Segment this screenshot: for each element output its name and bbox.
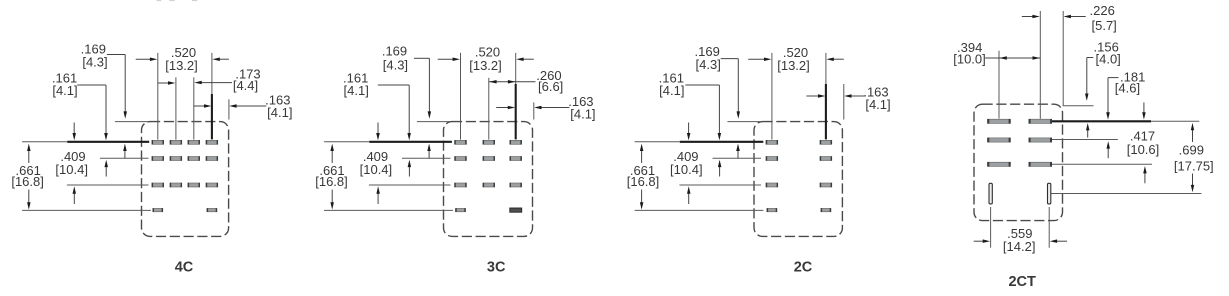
arrow .661 upper (up at row1) (28, 150, 30, 163)
svg-text:[10.6]: [10.6] (1127, 142, 1160, 157)
extension line below left vertical pin (990, 207, 992, 248)
extension line, 2CT body right edge (vertical) (1062, 11, 1064, 106)
arrow .661 upper (up at row1) (641, 150, 643, 163)
svg-text:[4.3]: [4.3] (383, 57, 408, 72)
pin 4C row1 col2 (170, 140, 182, 144)
pin 4C row4 col1 (153, 208, 163, 211)
pin 4C row3 col1 (152, 183, 164, 187)
extension line, body right edge (533, 102, 535, 119)
arrow .169 partner (up at row1) (124, 150, 126, 158)
arrow .169 partner (up at row1) (428, 150, 430, 158)
arrow .161 partner (up at row2) (105, 166, 107, 177)
svg-text:[13.2]: [13.2] (469, 58, 502, 73)
vertical pin 2CT right (1048, 183, 1051, 204)
datum line, pin column D (thick) (515, 84, 517, 139)
pin 2C row1 col2 (820, 140, 832, 144)
arrow .661 lower (down at row4) (331, 190, 333, 204)
arrow .163 right (tip at body edge) (235, 105, 267, 107)
pin 2CT row2 col1 (988, 138, 1011, 142)
svg-text:4C: 4C (175, 259, 194, 275)
row-1 datum line (thick) (369, 141, 452, 143)
row-1 datum line (thin left part) (635, 141, 680, 143)
arrow .409 lower (up at row3) (688, 193, 690, 205)
dimension line .394 (inside arrows) (985, 57, 1040, 59)
arrow .173 left (tip at col B) (158, 82, 170, 84)
pin 4C row4 col4 (207, 208, 217, 211)
arrow .559 left (974, 240, 985, 242)
row-3 extension line (679, 184, 761, 186)
row-4 extension line (324, 209, 453, 211)
2CT row-2 extension line (1052, 139, 1118, 141)
svg-text:[4.6]: [4.6] (1115, 81, 1140, 96)
pin 4C row1 col3 (188, 140, 200, 144)
extension line, pin column D (thin upper part) (825, 53, 827, 84)
pin 3C row1 col1 (455, 140, 467, 144)
svg-text:[5.7]: [5.7] (1092, 18, 1117, 33)
arrow .661 lower (down at row4) (28, 190, 30, 204)
relay body outline 3C (444, 122, 533, 237)
2CT row-1 datum line (thick) (1051, 120, 1151, 122)
arrow .699 lower (down at vertical-pin line) (1192, 174, 1194, 187)
leader line .181 (1108, 77, 1119, 79)
pin 2CT row1 col2 (1029, 119, 1052, 123)
pin 4C row1 col4 (206, 140, 218, 144)
arrow .661 upper (up at row1) (331, 150, 333, 163)
row-1 datum line (thin left part) (324, 141, 369, 143)
pin 4C row2 col2 (170, 157, 182, 161)
pin 2C row2 col2 (820, 157, 832, 161)
svg-text:[4.1]: [4.1] (570, 106, 595, 121)
arrow .173 right (tip at col C) (200, 82, 232, 84)
svg-text:[4.1]: [4.1] (52, 83, 77, 98)
svg-text:[4.4]: [4.4] (233, 78, 258, 93)
svg-text:[13.2]: [13.2] (777, 58, 810, 73)
extension line, 2CT left pin column (998, 51, 1000, 119)
svg-text:.699: .699 (1179, 143, 1204, 158)
svg-text:[4.1]: [4.1] (865, 97, 890, 112)
svg-text:[10.4]: [10.4] (55, 162, 88, 177)
svg-text:2CT: 2CT (1008, 274, 1036, 290)
extension line, pin column B (488, 78, 490, 140)
extension line, pin column D (thin upper part) (211, 53, 213, 94)
datum line, pin column D (thick) (211, 94, 213, 139)
pin 3C row4 col3 (510, 208, 522, 212)
pin 3C row2 col3 (510, 157, 522, 161)
pin 3C row3 col2 (483, 183, 495, 187)
arrow .161 partner (up at row2) (408, 166, 410, 177)
2CT row-3 extension line (1052, 163, 1153, 165)
svg-text:[4.3]: [4.3] (82, 55, 107, 70)
arrow .559 right (1055, 240, 1067, 242)
svg-text:[17.75]: [17.75] (1174, 158, 1214, 173)
extension line, body right edge (843, 84, 845, 120)
extension line, pin column A (460, 53, 462, 140)
pin 4C row3 col2 (170, 183, 182, 187)
pin 3C row2 col1 (455, 157, 467, 161)
svg-text:[13.2]: [13.2] (165, 58, 198, 73)
pin 2C row3 col1 (766, 183, 778, 187)
leader line .156 (1087, 57, 1094, 59)
svg-text:[16.8]: [16.8] (11, 174, 44, 189)
row-2 extension line (402, 157, 451, 159)
leader line .161 (77, 84, 106, 86)
leader line .161 (685, 84, 719, 86)
pin 2CT row3 col1 (988, 162, 1011, 166)
pin 2C row1 col1 (766, 140, 778, 144)
arrow .163 right (tip at body edge) (850, 95, 865, 97)
2CT vertical-pin extension line (right) (1051, 193, 1201, 195)
leader line .169 (107, 54, 125, 56)
pin 2C row3 col2 (820, 183, 832, 187)
pin 3C row2 col2 (483, 157, 495, 161)
svg-text:[10.4]: [10.4] (670, 162, 703, 177)
leader line .169 (721, 58, 739, 60)
svg-text:[4.1]: [4.1] (267, 105, 292, 120)
pin 4C row3 col4 (206, 183, 218, 187)
pin 2CT row1 col1 (988, 119, 1011, 123)
leader line .169 (414, 57, 429, 59)
pin 2C row4 col2 (821, 208, 831, 211)
row-1 datum line (thick) (67, 141, 149, 143)
cropped text remnant 2 (169, 0, 174, 1)
row-2 extension line (100, 157, 149, 159)
arrow .520 left (748, 58, 766, 60)
arrow .699 upper (up at row1) (1192, 129, 1194, 142)
pin 3C row4 col1 (456, 208, 466, 211)
svg-text:2C: 2C (794, 259, 813, 275)
extension line, body top edge (left) (727, 121, 760, 123)
arrow .226 right (tip at body edge ext) (1069, 16, 1086, 18)
extension line, body top edge (left) (417, 121, 450, 123)
pin 3C row3 col1 (455, 183, 467, 187)
row-4 extension line (22, 209, 151, 211)
svg-text:[4.0]: [4.0] (1096, 51, 1121, 66)
arrow .409 upper (down at row1) (377, 123, 379, 135)
arrow .163 left (tip at col D) (806, 95, 819, 97)
extension line, pin column A (157, 53, 159, 140)
dimension line .260 (inside arrows) (489, 81, 536, 83)
extension line, 2CT right pin column (1039, 11, 1041, 119)
pin 4C row2 col3 (188, 157, 200, 161)
row-4 extension line (635, 209, 764, 211)
arrow .520 right (832, 58, 844, 60)
pin 4C row2 col1 (152, 157, 164, 161)
pin 2C row2 col1 (766, 157, 778, 161)
pin 4C row1 col1 (152, 140, 164, 144)
extension line, pin column D (thin upper part) (515, 53, 517, 84)
arrow .161 partner (up at row2) (719, 166, 721, 177)
arrow .169 partner (up at row1) (737, 150, 739, 158)
extension line, body top edge (left) (115, 121, 148, 123)
svg-text:[4.3]: [4.3] (696, 57, 721, 72)
arrow .163 right (tip at body edge) (540, 107, 570, 109)
arrow .163 left (tip at col D) (194, 105, 206, 107)
arrow .409 lower (up at row3) (73, 193, 75, 205)
arrow .417 upper (down at row1) (1143, 102, 1145, 114)
leader line .161 (378, 84, 409, 86)
relay body outline 2CT (974, 104, 1063, 220)
arrow .409 upper (down at row1) (73, 123, 75, 135)
pin 3C row1 col2 (483, 140, 495, 144)
svg-text:[6.6]: [6.6] (538, 79, 563, 94)
extension line below right vertical pin (1048, 207, 1050, 248)
arrow .409 upper (down at row1) (688, 123, 690, 135)
cropped text remnant 1 (157, 0, 162, 1)
pin 2CT row2 col2 (1029, 138, 1052, 142)
relay body outline 4C (142, 122, 229, 237)
svg-text:[16.8]: [16.8] (315, 174, 348, 189)
pin 3C row3 col3 (510, 183, 522, 187)
arrow .661 lower (down at row4) (641, 190, 643, 204)
datum line, pin column D (thick) (825, 84, 827, 139)
svg-text:3C: 3C (487, 259, 506, 275)
svg-text:[16.8]: [16.8] (627, 174, 660, 189)
arrow .520 left (136, 58, 152, 60)
extension line, 2CT body top edge (right) (1063, 105, 1094, 107)
svg-text:.169: .169 (382, 43, 407, 58)
svg-text:[4.1]: [4.1] (659, 83, 684, 98)
pin 2CT row3 col2 (1029, 162, 1052, 166)
svg-text:[10.4]: [10.4] (360, 162, 393, 177)
extension line, pin column B (175, 77, 177, 139)
row-2 extension line (713, 157, 762, 159)
row-3 extension line (369, 184, 451, 186)
arrow .520 right (218, 58, 229, 60)
row-1 datum line (thin left part) (22, 141, 67, 143)
arrow .409 lower (up at row3) (377, 193, 379, 205)
svg-text:[4.1]: [4.1] (344, 83, 369, 98)
extension line, body right edge (228, 99, 230, 119)
arrow .181 partner (up at row2) (1107, 148, 1109, 159)
svg-text:[14.2]: [14.2] (1003, 239, 1036, 254)
arrow .520 right (522, 58, 534, 60)
arrow .417 lower (up at row3) (1144, 172, 1146, 183)
arrow .520 left (438, 58, 455, 60)
extension line, pin column A (771, 53, 773, 140)
pin 4C row3 col3 (188, 183, 200, 187)
row-3 extension line (67, 184, 149, 186)
relay body outline 2C (754, 122, 842, 237)
arrow .156 partner (up at row1) (1087, 129, 1089, 138)
pin 2C row4 col1 (767, 208, 777, 211)
arrow .226 left (tip at right pin column) (1022, 16, 1034, 18)
arrow .163 left (tip at col D) (496, 107, 509, 109)
pin 4C row2 col4 (206, 157, 218, 161)
row-1 datum line (thick) (680, 141, 764, 143)
cropped text remnant 3 (192, 0, 197, 1)
pin 3C row1 col3 (510, 140, 522, 144)
extension line, pin column C (193, 77, 195, 139)
svg-text:[10.0]: [10.0] (953, 51, 986, 66)
2CT row-1 datum line (thin right part) (1151, 120, 1199, 122)
svg-text:.226: .226 (1090, 3, 1115, 18)
vertical pin 2CT left (989, 183, 992, 204)
